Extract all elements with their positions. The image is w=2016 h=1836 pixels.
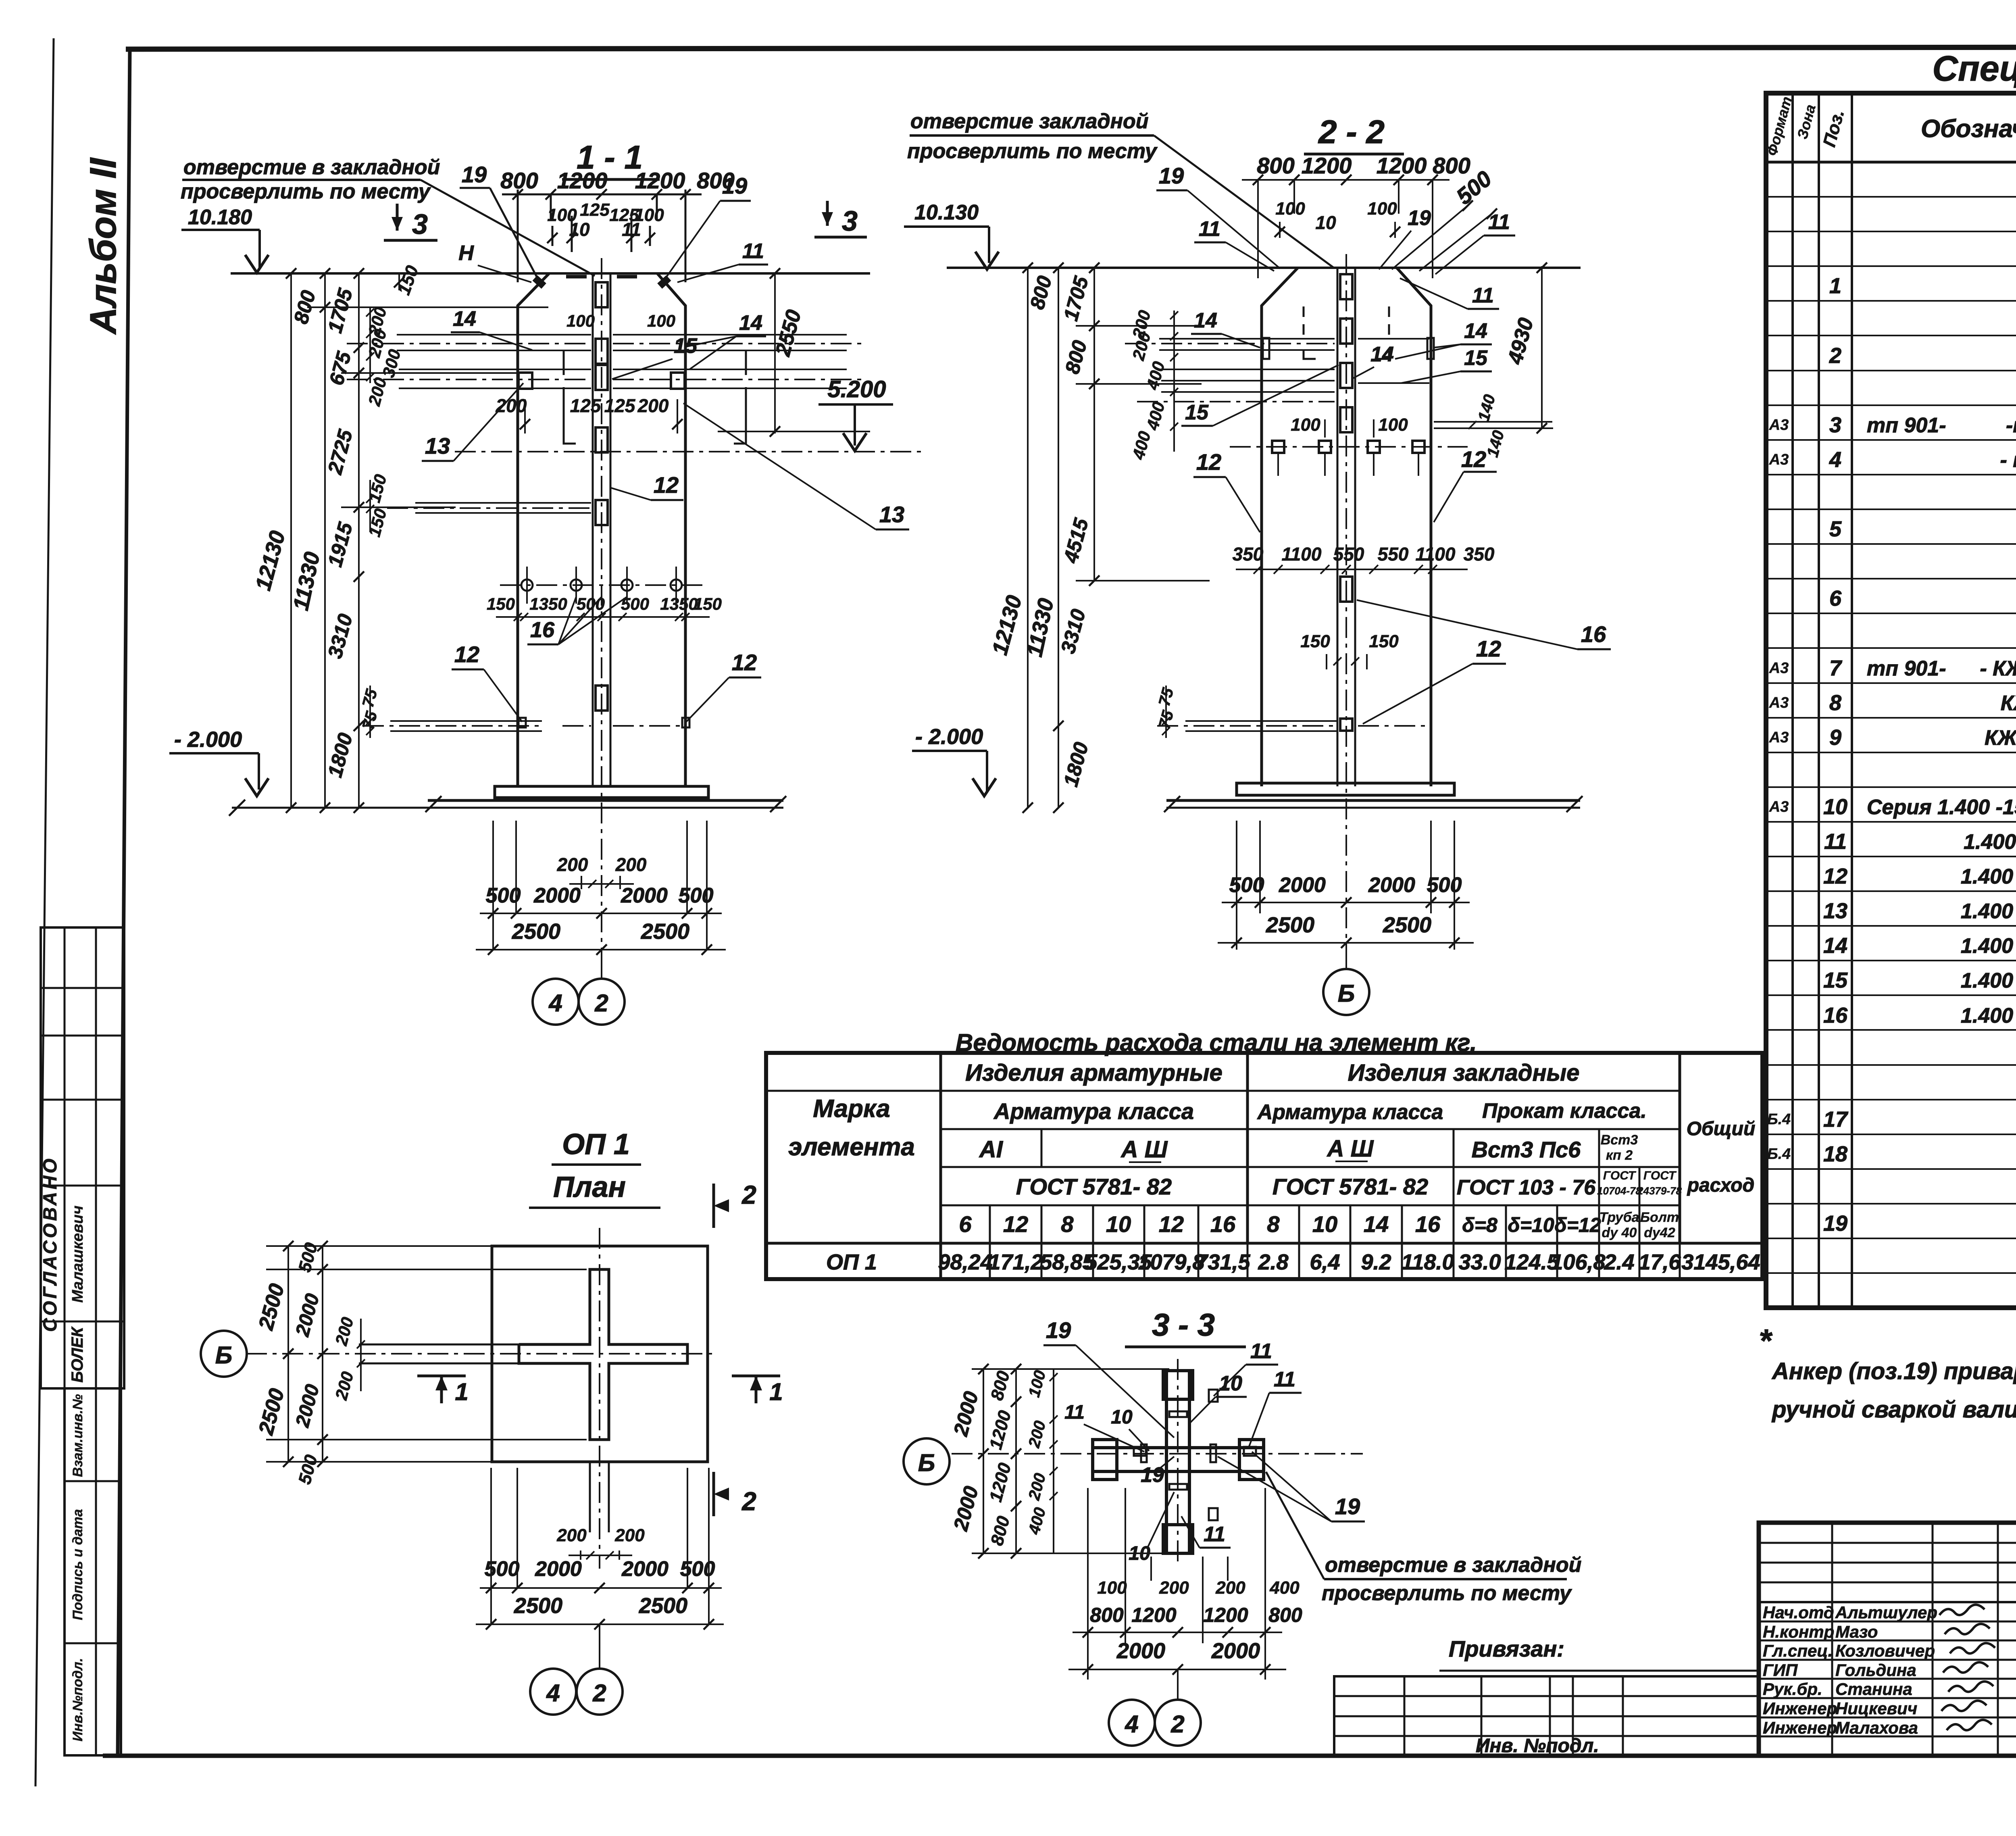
centre strip 2-2 bbox=[1337, 268, 1339, 786]
svg-text:2000: 2000 bbox=[1279, 873, 1326, 897]
svg-text:19: 19 bbox=[1823, 1211, 1847, 1236]
svg-text:Анкер (поз.19) приварить к зак: Анкер (поз.19) приварить к закладной (по… bbox=[1771, 1358, 2016, 1384]
mid dash-dot level line bbox=[455, 451, 925, 452]
svg-text:16: 16 bbox=[1210, 1211, 1236, 1237]
svg-text:1200: 1200 bbox=[557, 168, 608, 193]
svg-text:9: 9 bbox=[1829, 725, 1841, 750]
svg-text:14: 14 bbox=[453, 307, 476, 331]
mesh bundle 1 (y 830-935) bbox=[397, 334, 591, 336]
plan cross column bbox=[519, 1269, 687, 1440]
svg-text:19: 19 bbox=[1159, 163, 1184, 188]
svg-text:Инженер: Инженер bbox=[1763, 1699, 1837, 1718]
svg-text:2 - 2: 2 - 2 bbox=[1318, 114, 1385, 150]
spec table column lines bbox=[1791, 93, 1794, 1308]
lower mesh bundle (75/75) bbox=[390, 720, 542, 722]
svg-text:Козловичер: Козловичер bbox=[1835, 1641, 1935, 1660]
svg-text:2000: 2000 bbox=[535, 1557, 582, 1581]
below-grade dim extensions bbox=[492, 821, 494, 950]
svg-text:11: 11 bbox=[1488, 210, 1510, 234]
ground lines 2-2 bbox=[1166, 799, 1580, 802]
svg-text:550: 550 bbox=[1333, 544, 1364, 565]
svg-text:КЖИ: 1.2.00 - 01: КЖИ: 1.2.00 - 01 bbox=[1985, 726, 2016, 750]
svg-text:Прокат класса.: Прокат класса. bbox=[1482, 1099, 1647, 1123]
ground double line bbox=[428, 799, 783, 802]
svg-text:Общий: Общий bbox=[1687, 1118, 1756, 1140]
svg-text:Малашкевич: Малашкевич bbox=[69, 1206, 86, 1303]
svg-text:10: 10 bbox=[1129, 1543, 1150, 1564]
svg-text:8: 8 bbox=[1829, 691, 1841, 715]
svg-text:500: 500 bbox=[1427, 873, 1462, 897]
svg-text:106,8: 106,8 bbox=[1551, 1250, 1605, 1274]
svg-text:3: 3 bbox=[412, 208, 428, 240]
svg-text:СОГЛАСОВАНО: СОГЛАСОВАНО bbox=[39, 1156, 60, 1332]
embedded channel strip (centre slot) bbox=[592, 273, 594, 786]
svg-text:Ницкевич: Ницкевич bbox=[1835, 1699, 1917, 1718]
mesh bundle 2 (y 900-990) bbox=[399, 369, 591, 370]
spec table row grid bbox=[1766, 196, 2016, 198]
svg-text:- 2.000: - 2.000 bbox=[174, 727, 242, 752]
plan section marks 1 bbox=[417, 1375, 466, 1378]
svg-text:11: 11 bbox=[1199, 217, 1220, 241]
svg-text:150: 150 bbox=[487, 594, 515, 613]
svg-text:отверстие в закладной: отверстие в закладной bbox=[1325, 1553, 1581, 1577]
svg-text:Б.4: Б.4 bbox=[1767, 1111, 1791, 1128]
plan left dim chains bbox=[287, 1246, 289, 1462]
hidden embedded plate (dashed) left bbox=[564, 387, 576, 444]
svg-text:1200: 1200 bbox=[1302, 153, 1352, 178]
svg-text:18: 18 bbox=[1823, 1142, 1847, 1166]
svg-text:1: 1 bbox=[455, 1378, 468, 1405]
svg-text:Обозначение: Обозначение bbox=[1921, 115, 2016, 143]
section mark 3 (left) bbox=[396, 204, 399, 231]
svg-text:Серия 1.400 -15: Серия 1.400 -15 bbox=[1867, 796, 2016, 819]
svg-text:11: 11 bbox=[742, 240, 764, 263]
plan outline square bbox=[492, 1246, 708, 1462]
svg-text:12: 12 bbox=[1823, 864, 1847, 888]
svg-text:100: 100 bbox=[1291, 415, 1320, 435]
mesh bundle 3 (y 1245-1275) bbox=[415, 502, 591, 504]
2-2 mesh bundles bbox=[1159, 338, 1335, 340]
svg-text:24379-78: 24379-78 bbox=[1637, 1185, 1682, 1197]
svg-text:200: 200 bbox=[1159, 1578, 1189, 1598]
svg-text:4: 4 bbox=[548, 990, 562, 1017]
svg-text:2500: 2500 bbox=[512, 919, 560, 944]
svg-text:Инв. №подл.: Инв. №подл. bbox=[1476, 1735, 1599, 1757]
svg-text:4: 4 bbox=[1125, 1711, 1138, 1738]
sidebar approval box grid bbox=[41, 927, 124, 1388]
leader from note 2-2 bbox=[1154, 135, 1334, 268]
svg-text:16: 16 bbox=[1581, 621, 1606, 647]
svg-text:33.0: 33.0 bbox=[1458, 1250, 1501, 1274]
svg-text:δ=10: δ=10 bbox=[1508, 1214, 1554, 1236]
3-3 embedded plates bbox=[1169, 1411, 1187, 1417]
svg-text:Спецификация ОП 1: Спецификация ОП 1 bbox=[1932, 48, 2016, 88]
svg-text:100: 100 bbox=[647, 311, 675, 330]
svg-text:125: 125 bbox=[604, 395, 636, 416]
svg-text:500: 500 bbox=[485, 1557, 520, 1581]
svg-text:План: План bbox=[553, 1171, 626, 1203]
svg-text:ОП 1: ОП 1 bbox=[826, 1250, 877, 1274]
hidden embedded plate (dashed) right bbox=[734, 387, 746, 444]
svg-text:1079,8: 1079,8 bbox=[1138, 1250, 1204, 1274]
dim 4930 right bbox=[1541, 266, 1543, 428]
svg-text:1: 1 bbox=[1829, 274, 1841, 298]
svg-text:100: 100 bbox=[566, 311, 595, 330]
svg-text:dy42: dy42 bbox=[1644, 1225, 1675, 1240]
svg-text:500: 500 bbox=[679, 884, 714, 907]
svg-text:отверстие в закладной: отверстие в закладной bbox=[183, 156, 440, 179]
anchor bolt squares row bbox=[1230, 446, 1468, 448]
top of column line (elev 10.180) bbox=[231, 272, 870, 275]
3-3 cross outline bbox=[1166, 1371, 1189, 1553]
svg-text:расход: расход bbox=[1687, 1175, 1755, 1196]
svg-text:2000: 2000 bbox=[1211, 1639, 1260, 1663]
svg-text:19: 19 bbox=[1335, 1494, 1360, 1519]
svg-text:1.400 - 15: 1.400 - 15 bbox=[1961, 934, 2016, 958]
svg-text:8: 8 bbox=[1061, 1211, 1074, 1237]
svg-text:5.200: 5.200 bbox=[827, 376, 886, 402]
svg-text:2500: 2500 bbox=[1383, 913, 1431, 937]
svg-text:отверстие закладной: отверстие закладной bbox=[910, 110, 1149, 133]
svg-text:11: 11 bbox=[1250, 1340, 1272, 1363]
svg-text:просверлить по месту: просверлить по месту bbox=[907, 140, 1158, 163]
svg-text:200: 200 bbox=[556, 1525, 587, 1545]
svg-text:118.0: 118.0 bbox=[1401, 1250, 1454, 1274]
svg-text:КЖИ.1.2.00: КЖИ.1.2.00 bbox=[2001, 692, 2016, 715]
svg-text:Альтшулер: Альтшулер bbox=[1835, 1603, 1937, 1622]
svg-text:171,2: 171,2 bbox=[988, 1250, 1043, 1274]
svg-text:dy 40: dy 40 bbox=[1602, 1225, 1637, 1240]
svg-text:12: 12 bbox=[1159, 1211, 1184, 1237]
svg-text:Рук.бр.: Рук.бр. bbox=[1763, 1680, 1822, 1698]
svg-text:11: 11 bbox=[1064, 1402, 1085, 1423]
svg-text:17,6: 17,6 bbox=[1638, 1250, 1681, 1274]
svg-text:10.180: 10.180 bbox=[188, 206, 252, 229]
svg-text:1350: 1350 bbox=[529, 594, 567, 613]
svg-text:100: 100 bbox=[1367, 199, 1397, 219]
svg-text:10: 10 bbox=[1219, 1372, 1242, 1395]
svg-text:2500: 2500 bbox=[639, 1594, 687, 1618]
svg-text:ГОСТ 103 - 76: ГОСТ 103 - 76 bbox=[1457, 1176, 1596, 1199]
svg-text:кп 2: кп 2 bbox=[1606, 1148, 1633, 1163]
svg-text:Болт: Болт bbox=[1640, 1210, 1679, 1225]
section mark 3 (right) bbox=[826, 201, 829, 226]
svg-text:15: 15 bbox=[1823, 968, 1848, 992]
svg-text:125: 125 bbox=[570, 395, 602, 416]
svg-text:800: 800 bbox=[500, 168, 538, 193]
svg-text:14: 14 bbox=[1194, 309, 1217, 332]
svg-text:Изделия закладные: Изделия закладные bbox=[1348, 1060, 1580, 1086]
title block outer bbox=[1759, 1523, 2016, 1756]
svg-text:Мазо: Мазо bbox=[1835, 1622, 1878, 1641]
svg-text:4: 4 bbox=[546, 1680, 560, 1707]
leader from note to column top bbox=[421, 180, 595, 276]
svg-text:2000: 2000 bbox=[1368, 873, 1415, 897]
svg-text:12: 12 bbox=[1003, 1211, 1028, 1237]
svg-text:9.2: 9.2 bbox=[1361, 1250, 1391, 1274]
spec table header row line bbox=[1766, 161, 2016, 164]
svg-text:150: 150 bbox=[694, 594, 722, 613]
svg-text:10: 10 bbox=[1315, 212, 1336, 233]
svg-text:731,5: 731,5 bbox=[1195, 1250, 1250, 1274]
svg-text:просверлить по месту: просверлить по месту bbox=[181, 180, 431, 203]
signature rows bbox=[1759, 1621, 2016, 1623]
svg-text:просверлить по месту: просверлить по месту bbox=[1322, 1582, 1572, 1605]
svg-text:800: 800 bbox=[1268, 1604, 1302, 1626]
svg-text:-кжи.1.2.00.01: -кжи.1.2.00.01 bbox=[2006, 414, 2016, 437]
column 1-1 outline with chamfered head bbox=[518, 273, 549, 786]
svg-text:Альбом II: Альбом II bbox=[83, 157, 124, 335]
plan adjacent panel (bottom) bbox=[589, 1462, 591, 1532]
plan axis lines bbox=[246, 1353, 718, 1355]
svg-text:А3: А3 bbox=[1769, 451, 1789, 468]
hidden dashed plates 2-2 bbox=[1304, 351, 1316, 359]
svg-text:13: 13 bbox=[879, 502, 904, 527]
3-3 left dim chains bbox=[983, 1369, 984, 1553]
svg-text:10: 10 bbox=[1111, 1407, 1133, 1428]
svg-text:200: 200 bbox=[614, 1525, 645, 1545]
svg-text:А3: А3 bbox=[1769, 417, 1789, 433]
svg-text:2: 2 bbox=[1170, 1711, 1184, 1738]
svg-text:13: 13 bbox=[425, 433, 450, 458]
2-2 left dim chain bbox=[1027, 268, 1029, 808]
svg-text:10704-78: 10704-78 bbox=[1597, 1185, 1641, 1197]
svg-text:15: 15 bbox=[1464, 346, 1488, 370]
slot plates in centre strip bbox=[596, 282, 608, 307]
svg-text:Инв.№подл.: Инв.№подл. bbox=[70, 1658, 85, 1741]
svg-text:δ=8: δ=8 bbox=[1462, 1214, 1497, 1236]
svg-text:- 2.000: - 2.000 bbox=[915, 725, 983, 749]
svg-text:Гольдина: Гольдина bbox=[1835, 1661, 1916, 1680]
sidebar lower stamp boxes bbox=[65, 1388, 121, 1755]
svg-text:98,24: 98,24 bbox=[938, 1250, 992, 1274]
svg-text:Б: Б bbox=[215, 1342, 232, 1369]
footing plate 2-2 bbox=[1237, 783, 1454, 795]
svg-text:1200: 1200 bbox=[635, 168, 685, 193]
svg-text:1200: 1200 bbox=[1203, 1604, 1248, 1626]
left dimension chain verticals bbox=[290, 273, 292, 808]
svg-text:Б.4: Б.4 bbox=[1767, 1146, 1791, 1163]
svg-text:Инженер: Инженер bbox=[1763, 1718, 1837, 1737]
column 2-2 centre line bbox=[1345, 254, 1347, 966]
svg-text:ручной сваркой валиковыми швам: ручной сваркой валиковыми швами. bbox=[1771, 1396, 2016, 1423]
svg-text:2.4: 2.4 bbox=[1604, 1250, 1634, 1274]
signature table columns bbox=[1831, 1523, 1833, 1756]
top anchor plates on chamfers bbox=[532, 275, 546, 289]
svg-text:элемента: элемента bbox=[788, 1133, 915, 1161]
svg-text:Взам.инв.№: Взам.инв.№ bbox=[70, 1394, 85, 1477]
svg-text:2000: 2000 bbox=[1116, 1639, 1165, 1663]
svg-text:Б: Б bbox=[1338, 980, 1355, 1007]
svg-text:ГОСТ: ГОСТ bbox=[1643, 1169, 1677, 1182]
svg-text:1100: 1100 bbox=[1416, 544, 1456, 565]
svg-text:2000: 2000 bbox=[621, 884, 668, 907]
svg-text:12: 12 bbox=[1196, 449, 1221, 475]
svg-text:15: 15 bbox=[1185, 401, 1209, 424]
sheet frame border bbox=[126, 47, 2016, 49]
svg-text:- кжи.1.2.00.02: - кжи.1.2.00.02 bbox=[2000, 448, 2016, 472]
svg-text:200: 200 bbox=[496, 395, 527, 416]
svg-text:Подпись и дата: Подпись и дата bbox=[70, 1509, 85, 1620]
axis circle Б (3-3) bbox=[904, 1438, 950, 1484]
svg-text:- КЖИ. 1.2.00. 01: - КЖИ. 1.2.00. 01 bbox=[1980, 657, 2016, 680]
svg-text:2500: 2500 bbox=[1266, 913, 1314, 937]
svg-text:Марка: Марка bbox=[813, 1095, 890, 1123]
svg-text:14: 14 bbox=[1464, 319, 1487, 343]
svg-text:16: 16 bbox=[1415, 1211, 1441, 1237]
svg-text:1.400 - 15: 1.400 - 15 bbox=[1961, 865, 2016, 888]
svg-text:Н.контр: Н.контр bbox=[1763, 1622, 1834, 1641]
svg-text:Вст3 Пс6: Вст3 Пс6 bbox=[1472, 1137, 1581, 1162]
svg-text:А3: А3 bbox=[1769, 694, 1789, 711]
svg-text:Арматура класса: Арматура класса bbox=[993, 1098, 1194, 1124]
column 2-2 outline bbox=[1262, 268, 1298, 786]
side stirrup boxes pos 13 bbox=[519, 373, 532, 389]
svg-text:δ=12: δ=12 bbox=[1554, 1214, 1601, 1236]
svg-text:125: 125 bbox=[580, 200, 610, 220]
svg-text:А Ш: А Ш bbox=[1120, 1136, 1168, 1163]
3-3 axis bbox=[952, 1453, 1363, 1455]
column 1-1 centre line bbox=[601, 258, 602, 974]
svg-text:1: 1 bbox=[769, 1378, 783, 1405]
svg-text:2500: 2500 bbox=[514, 1594, 562, 1618]
svg-text:Вст3: Вст3 bbox=[1601, 1132, 1638, 1148]
svg-text:*: * bbox=[1759, 1323, 1773, 1359]
svg-text:Арматура класса: Арматура класса bbox=[1257, 1100, 1443, 1124]
svg-text:1200: 1200 bbox=[1131, 1604, 1176, 1626]
svg-text:200: 200 bbox=[1215, 1578, 1245, 1598]
svg-text:500: 500 bbox=[680, 1557, 715, 1581]
svg-text:11: 11 bbox=[1274, 1368, 1295, 1391]
svg-text:2500: 2500 bbox=[641, 919, 689, 944]
plan section marks 2 bbox=[712, 1184, 715, 1228]
svg-text:16: 16 bbox=[1823, 1003, 1848, 1027]
svg-text:14: 14 bbox=[739, 311, 762, 335]
steel table outer border bbox=[766, 1053, 1762, 1279]
svg-text:Труба: Труба bbox=[1599, 1210, 1639, 1225]
svg-text:11: 11 bbox=[1472, 284, 1494, 307]
axis circle Б (plan) bbox=[201, 1331, 247, 1377]
svg-text:200: 200 bbox=[615, 854, 647, 875]
svg-text:19: 19 bbox=[722, 173, 747, 198]
svg-text:1.400 -15: 1.400 -15 bbox=[1964, 830, 2016, 854]
svg-text:Б: Б bbox=[918, 1449, 935, 1476]
svg-text:800: 800 bbox=[1090, 1604, 1124, 1626]
svg-text:Н: Н bbox=[458, 242, 474, 265]
svg-text:12: 12 bbox=[732, 650, 757, 675]
footing plate 1-1 bbox=[495, 786, 708, 798]
steel table grid bbox=[766, 1090, 1680, 1092]
svg-text:19: 19 bbox=[462, 162, 487, 187]
svg-text:150: 150 bbox=[1300, 631, 1330, 651]
svg-text:12: 12 bbox=[654, 472, 679, 498]
svg-text:550: 550 bbox=[1378, 544, 1409, 565]
svg-text:АI: АI bbox=[979, 1136, 1004, 1163]
svg-text:1.400 - 15: 1.400 - 15 bbox=[1961, 1004, 2016, 1027]
svg-text:13: 13 bbox=[1823, 899, 1847, 923]
svg-text:11: 11 bbox=[1824, 829, 1847, 854]
svg-text:500: 500 bbox=[1229, 873, 1264, 897]
svg-text:12: 12 bbox=[1461, 446, 1486, 472]
svg-text:ГОСТ 5781- 82: ГОСТ 5781- 82 bbox=[1016, 1174, 1172, 1199]
svg-text:ГОСТ 5781- 82: ГОСТ 5781- 82 bbox=[1272, 1174, 1428, 1199]
svg-text:4: 4 bbox=[1829, 448, 1841, 472]
chain ticks top bbox=[286, 268, 296, 279]
svg-text:200: 200 bbox=[637, 395, 669, 416]
3-3 axis circles 4 2 bbox=[1177, 1669, 1179, 1701]
svg-text:1.400 - 15: 1.400 - 15 bbox=[1961, 900, 2016, 923]
svg-text:200: 200 bbox=[557, 854, 588, 875]
svg-text:19: 19 bbox=[1046, 1317, 1071, 1343]
plan axis circles 4 2 bbox=[599, 1624, 600, 1669]
svg-text:150: 150 bbox=[1369, 631, 1399, 651]
svg-text:тп 901-: тп 901- bbox=[1867, 414, 1946, 437]
svg-text:5: 5 bbox=[1829, 517, 1842, 541]
svg-text:12: 12 bbox=[454, 642, 479, 667]
dim 2550 (right) bbox=[774, 273, 776, 433]
svg-text:Гл.спец.: Гл.спец. bbox=[1763, 1641, 1833, 1660]
svg-text:Изделия арматурные: Изделия арматурные bbox=[965, 1060, 1223, 1086]
svg-text:2.8: 2.8 bbox=[1258, 1250, 1288, 1274]
svg-text:2: 2 bbox=[592, 1680, 606, 1707]
svg-text:2: 2 bbox=[1829, 344, 1841, 368]
svg-text:2000: 2000 bbox=[621, 1557, 669, 1581]
svg-text:100: 100 bbox=[1378, 415, 1408, 435]
svg-text:800: 800 bbox=[1433, 153, 1470, 178]
svg-text:6,4: 6,4 bbox=[1310, 1250, 1340, 1274]
svg-text:16: 16 bbox=[530, 618, 555, 642]
svg-text:А3: А3 bbox=[1769, 798, 1789, 815]
svg-text:ГИП: ГИП bbox=[1763, 1661, 1798, 1680]
svg-text:А Ш: А Ш bbox=[1327, 1136, 1374, 1162]
3-3 bottom dim extensions bbox=[1087, 1488, 1089, 1680]
svg-text:100: 100 bbox=[1275, 199, 1305, 219]
svg-text:17: 17 bbox=[1823, 1107, 1849, 1132]
svg-text:1100: 1100 bbox=[1282, 544, 1322, 565]
svg-text:1350: 1350 bbox=[660, 594, 698, 613]
side stirrups 2-2 bbox=[1263, 338, 1269, 359]
svg-text:19: 19 bbox=[1408, 206, 1431, 230]
svg-text:3: 3 bbox=[842, 205, 858, 237]
upper small rows bbox=[1759, 1542, 2016, 1544]
svg-text:10.130: 10.130 bbox=[914, 201, 979, 224]
svg-text:6: 6 bbox=[959, 1211, 972, 1237]
svg-text:3145,64: 3145,64 bbox=[1681, 1250, 1760, 1274]
svg-text:10: 10 bbox=[1106, 1211, 1131, 1237]
svg-text:2000: 2000 bbox=[533, 884, 581, 907]
svg-text:Нач.отд: Нач.отд bbox=[1763, 1603, 1834, 1622]
svg-text:Малахова: Малахова bbox=[1835, 1718, 1918, 1737]
svg-text:8: 8 bbox=[1267, 1211, 1280, 1237]
svg-text:2: 2 bbox=[741, 1180, 756, 1209]
svg-text:тп 901-: тп 901- bbox=[1867, 657, 1946, 680]
spec table outer border bbox=[1766, 93, 2016, 1308]
svg-text:500: 500 bbox=[486, 884, 521, 907]
svg-text:350: 350 bbox=[1464, 544, 1495, 565]
svg-text:3 - 3: 3 - 3 bbox=[1152, 1307, 1215, 1342]
svg-text:14: 14 bbox=[1370, 343, 1394, 366]
svg-text:ГОСТ: ГОСТ bbox=[1603, 1169, 1637, 1182]
svg-text:Привязан:: Привязан: bbox=[1449, 1636, 1564, 1661]
svg-text:Станина: Станина bbox=[1835, 1680, 1912, 1698]
axis circle Б bbox=[1345, 943, 1347, 970]
svg-text:10: 10 bbox=[1312, 1211, 1337, 1237]
svg-text:15: 15 bbox=[674, 334, 698, 358]
top of column line 2-2 bbox=[947, 267, 1581, 269]
svg-text:7: 7 bbox=[1829, 656, 1843, 680]
svg-text:БОЛЕК: БОЛЕК bbox=[69, 1326, 86, 1383]
svg-text:10: 10 bbox=[1823, 795, 1847, 819]
